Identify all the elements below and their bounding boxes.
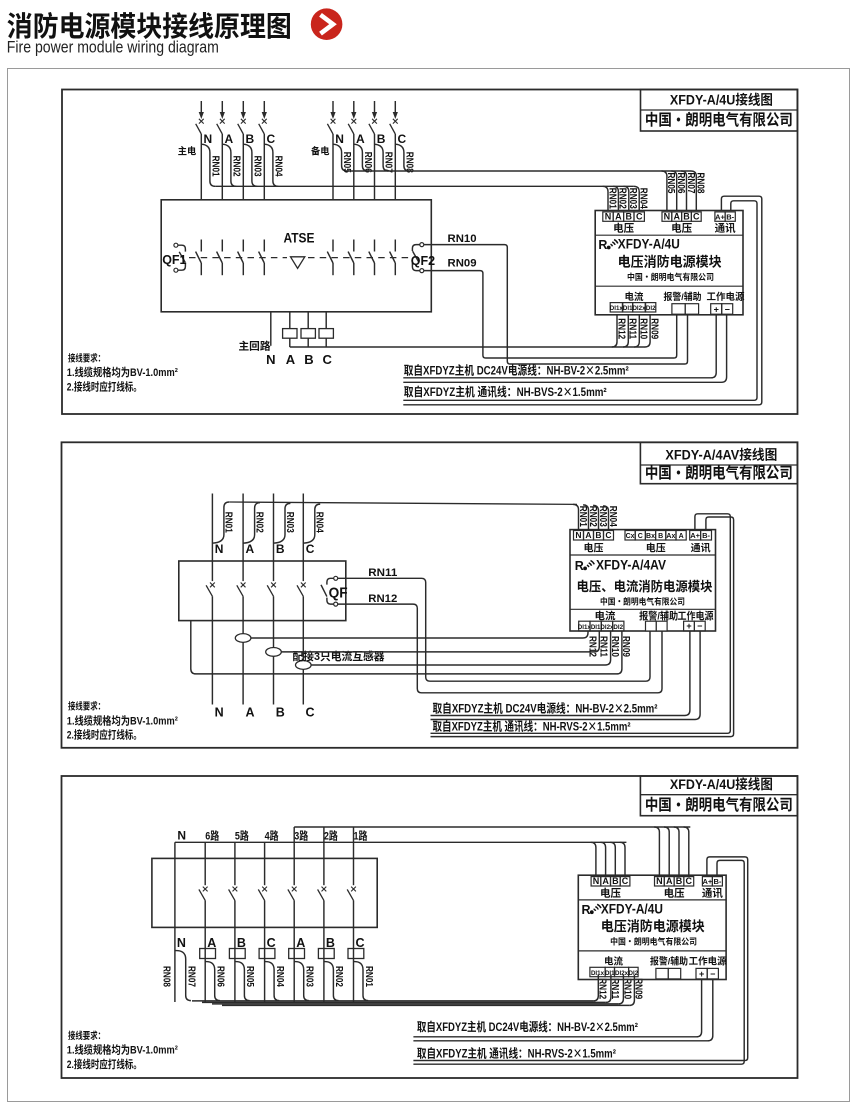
switch S21 (backup input N) bbox=[327, 101, 335, 134]
svg-text:A: A bbox=[286, 349, 296, 368]
branch RN03 bbox=[294, 962, 309, 1001]
svg-text:2.接线时应打线标。: 2.接线时应打线标。 bbox=[67, 379, 142, 395]
wire RN10 (QF2 top contact) bbox=[424, 245, 688, 364]
svg-text:报警/辅助: 报警/辅助 bbox=[639, 608, 678, 623]
svg-text:DI2: DI2 bbox=[613, 622, 623, 631]
switch S2 (5路) bbox=[229, 858, 238, 927]
svg-text:工作电源: 工作电源 bbox=[689, 954, 727, 968]
fuse branch RN03 bbox=[243, 144, 257, 186]
ATSE linkage dashed line bbox=[189, 257, 287, 259]
svg-text:RN08: RN08 bbox=[404, 152, 419, 173]
riser RN06 to U1 group2 A bbox=[671, 171, 676, 211]
branch RN01 bbox=[354, 962, 369, 1001]
switch S13 (main input B) bbox=[238, 101, 246, 134]
fuse branch RN05 bbox=[333, 144, 347, 171]
svg-text:Ax: Ax bbox=[666, 531, 675, 541]
branch RN02 bbox=[324, 962, 339, 1001]
svg-text:取自XFDYZ主机 DC24V电源线：NH-BV-2×2.5: 取自XFDYZ主机 DC24V电源线：NH-BV-2×2.5mm² bbox=[404, 362, 629, 379]
ATSE pole switch 1 bbox=[196, 240, 202, 276]
svg-text:RN04: RN04 bbox=[638, 188, 653, 209]
panel 2 title box XFDY-A/4AV bbox=[640, 442, 797, 483]
svg-text:DI2x: DI2x bbox=[632, 303, 646, 312]
svg-text:B: B bbox=[304, 349, 313, 368]
svg-text:C: C bbox=[636, 209, 643, 222]
svg-text:4路: 4路 bbox=[265, 827, 279, 843]
U1 DI terminals bbox=[610, 303, 622, 312]
U3 power terminals + - bbox=[696, 968, 707, 979]
wire main-circuit A bbox=[289, 312, 291, 347]
svg-text:电压消防电源模块: 电压消防电源模块 bbox=[601, 915, 705, 935]
svg-text:RN03: RN03 bbox=[304, 966, 319, 987]
svg-text:XFDY-A/4U接线图: XFDY-A/4U接线图 bbox=[670, 89, 773, 109]
DI riser RN10 bbox=[634, 315, 639, 347]
svg-text:A: A bbox=[679, 531, 684, 541]
svg-text:N: N bbox=[575, 529, 581, 541]
svg-text:+: + bbox=[714, 302, 719, 315]
U2 comm terminals A+ B- bbox=[690, 531, 701, 541]
riser RN03 to U2 B bbox=[593, 505, 598, 529]
svg-text:RN06: RN06 bbox=[215, 966, 230, 987]
wire main-circuit C bbox=[325, 312, 327, 347]
svg-text:RN04: RN04 bbox=[273, 156, 288, 177]
gather bus wire 4 bbox=[222, 1004, 629, 1006]
module U1 outline bbox=[595, 211, 743, 315]
output wire B bbox=[273, 621, 275, 705]
wire RN12 bbox=[338, 604, 662, 693]
svg-text:电流: 电流 bbox=[604, 954, 623, 968]
svg-text:R: R bbox=[582, 899, 591, 918]
panel 1 title box XFDY-A/4U bbox=[641, 90, 798, 132]
fuse F5 (5路) bbox=[229, 949, 245, 959]
output wire A bbox=[242, 621, 244, 705]
DC24V wire - bbox=[413, 980, 712, 1041]
switch S1 bbox=[206, 561, 215, 621]
switch S23 (backup input B) bbox=[369, 101, 377, 134]
svg-text:DI1x: DI1x bbox=[591, 968, 605, 977]
svg-text:C: C bbox=[323, 349, 333, 368]
input wire N bbox=[211, 494, 213, 562]
fuse branch RN04 bbox=[303, 504, 320, 543]
riser to U3 group1 bbox=[610, 842, 615, 875]
riser to U3 group2 bbox=[684, 827, 689, 875]
breaker QF bbox=[321, 576, 338, 606]
svg-text:2.接线时应打线标。: 2.接线时应打线标。 bbox=[67, 727, 142, 743]
svg-text:XFDY-A/4AV: XFDY-A/4AV bbox=[596, 555, 667, 575]
gather bus wire 1 bbox=[192, 1000, 593, 1002]
wire C main bbox=[263, 134, 265, 200]
riser RN01 to U1 terminal N bbox=[603, 186, 608, 210]
switch S6 (1路) bbox=[347, 858, 356, 927]
switch S4 (3路) bbox=[288, 858, 297, 927]
U1 alarm terminals bbox=[672, 304, 685, 315]
svg-text:配接3只电流互感器: 配接3只电流互感器 bbox=[293, 648, 385, 664]
svg-text:XFDY-A/4U接线图: XFDY-A/4U接线图 bbox=[670, 773, 773, 793]
svg-text:N: N bbox=[215, 702, 224, 721]
svg-text:−: − bbox=[697, 619, 702, 632]
wire 4路 drop bbox=[264, 927, 266, 1002]
svg-text:R: R bbox=[575, 555, 584, 574]
output wire C bbox=[302, 621, 304, 705]
svg-text:工作电源: 工作电源 bbox=[707, 289, 745, 303]
wire B backup bbox=[374, 134, 376, 200]
DI riser RN10 bbox=[618, 975, 623, 1004]
U2 voltage terminals group1 bbox=[574, 531, 584, 541]
riser RN02 to U1 terminal A bbox=[613, 186, 618, 210]
breaker QF2 bbox=[412, 243, 423, 273]
fuse branch RN01 bbox=[201, 144, 215, 186]
svg-text:Fire power module wiring diagr: Fire power module wiring diagram bbox=[7, 34, 219, 58]
svg-text:中国・朗明电气有限公司: 中国・朗明电气有限公司 bbox=[627, 271, 714, 283]
svg-text:RN09: RN09 bbox=[448, 255, 477, 271]
svg-text:DI2: DI2 bbox=[646, 303, 656, 312]
svg-text:RN10: RN10 bbox=[448, 230, 477, 246]
DC24V wire + bbox=[431, 631, 690, 716]
svg-text:DI2x: DI2x bbox=[600, 622, 614, 631]
svg-text:C: C bbox=[306, 702, 315, 721]
svg-text:RN01: RN01 bbox=[363, 966, 378, 987]
switch S22 (backup input A) bbox=[348, 101, 356, 134]
gather bus wire 3 bbox=[212, 1003, 618, 1005]
svg-text:通讯: 通讯 bbox=[715, 221, 736, 236]
svg-text:DI1x: DI1x bbox=[610, 303, 624, 312]
panel2 bus wire bbox=[229, 502, 577, 504]
wire A main bbox=[221, 134, 223, 200]
feeder wire N bbox=[174, 842, 176, 858]
svg-text:通讯: 通讯 bbox=[691, 539, 711, 554]
svg-text:C: C bbox=[622, 874, 629, 887]
current transformer CT1 bbox=[283, 329, 297, 339]
input wire A bbox=[242, 494, 244, 562]
svg-text:取自XFDYZ主机 通讯线：NH-BVS-2×1.5mm²: 取自XFDYZ主机 通讯线：NH-BVS-2×1.5mm² bbox=[404, 383, 607, 400]
current transformer CT1 bbox=[235, 634, 251, 643]
CT-C wire to DI2x bbox=[311, 631, 610, 665]
riser to U3 group2 bbox=[654, 827, 659, 875]
svg-text:N: N bbox=[593, 874, 600, 887]
current transformer CT2 bbox=[301, 329, 315, 339]
svg-text:QF: QF bbox=[329, 582, 348, 603]
svg-text:取自XFDYZ主机 DC24V电源线：NH-BV-2×2.5: 取自XFDYZ主机 DC24V电源线：NH-BV-2×2.5mm² bbox=[433, 699, 658, 716]
U1 comm terminals A+ B- bbox=[715, 212, 725, 221]
svg-text:接线要求：: 接线要求： bbox=[68, 699, 105, 713]
svg-text:RN08: RN08 bbox=[161, 966, 176, 987]
wire N drop bbox=[174, 927, 176, 1002]
wire main-circuit N bbox=[270, 312, 272, 346]
svg-text:RN12: RN12 bbox=[368, 590, 397, 606]
switch S2 bbox=[237, 561, 246, 621]
fuse F1 (1路) bbox=[348, 949, 364, 959]
U2 current terminals Cx C Bx B Ax A bbox=[625, 531, 635, 541]
DC24V wire - bbox=[431, 631, 701, 720]
svg-text:QF1: QF1 bbox=[162, 249, 186, 268]
riser to U3 group2 bbox=[674, 827, 679, 875]
svg-text:中国・朗明电气有限公司: 中国・朗明电气有限公司 bbox=[645, 108, 793, 130]
riser RN04 to U2 C bbox=[603, 506, 608, 530]
svg-text:接线要求：: 接线要求： bbox=[68, 1028, 105, 1042]
branch RN04 bbox=[265, 962, 280, 1001]
svg-text:RN09: RN09 bbox=[648, 318, 663, 339]
riser to U3 group2 bbox=[664, 827, 669, 875]
U3 DI terminals bbox=[590, 967, 605, 976]
wire main-circuit B bbox=[307, 312, 309, 347]
switch S11 (main input N) bbox=[196, 101, 204, 134]
svg-text:RN09: RN09 bbox=[633, 978, 648, 999]
upper bus wire bbox=[294, 826, 690, 828]
comm wire A+ loop bbox=[403, 196, 762, 405]
svg-text:通讯: 通讯 bbox=[702, 885, 723, 900]
riser RN04 to U1 terminal C bbox=[634, 186, 639, 210]
svg-text:取自XFDYZ主机 通讯线：NH-RVS-2×1.5mm²: 取自XFDYZ主机 通讯线：NH-RVS-2×1.5mm² bbox=[433, 718, 631, 735]
svg-text:RN11: RN11 bbox=[368, 564, 397, 580]
panel 1 border bbox=[62, 90, 798, 415]
svg-text:中国・朗明电气有限公司: 中国・朗明电气有限公司 bbox=[645, 461, 793, 483]
fuse branch RN06 bbox=[354, 144, 368, 171]
svg-text:RN05: RN05 bbox=[244, 966, 259, 987]
svg-text:中国・朗明电气有限公司: 中国・朗明电气有限公司 bbox=[610, 936, 697, 948]
svg-text:工作电源: 工作电源 bbox=[678, 608, 714, 623]
wire 1路 drop bbox=[353, 927, 355, 1002]
svg-text:电压、电流消防电源模块: 电压、电流消防电源模块 bbox=[577, 576, 713, 595]
switch S1 (6路) bbox=[199, 858, 208, 927]
feeder wire 6路 bbox=[204, 842, 206, 858]
backup bus wire bbox=[347, 170, 691, 172]
svg-text:备电: 备电 bbox=[311, 144, 330, 158]
wire RN09 (QF2 bottom contact) bbox=[424, 271, 677, 358]
U2 power terminals bbox=[684, 621, 695, 631]
riser RN08 to U1 group2 C bbox=[691, 171, 696, 211]
svg-text:接线要求：: 接线要求： bbox=[68, 351, 105, 365]
svg-text:电压: 电压 bbox=[664, 885, 685, 900]
input wire C bbox=[302, 494, 304, 562]
U1 voltage terminals group2 N A B C bbox=[662, 212, 672, 221]
wire 6路 drop bbox=[204, 927, 206, 1002]
comm wire B- loop bbox=[431, 517, 734, 737]
svg-text:主电: 主电 bbox=[178, 144, 197, 158]
svg-text:N: N bbox=[656, 874, 663, 887]
svg-text:−: − bbox=[725, 302, 730, 315]
fuse F4 (4路) bbox=[259, 949, 275, 959]
current transformer CT3 bbox=[319, 329, 333, 339]
fuse F3 (3路) bbox=[289, 949, 305, 959]
current transformer CT2 bbox=[266, 648, 282, 657]
svg-text:QF2: QF2 bbox=[411, 250, 435, 269]
gather bus wire 2 bbox=[202, 1001, 606, 1003]
U3 logo bbox=[582, 899, 602, 918]
comm wire A+ loop bbox=[413, 857, 747, 1061]
CT-A wire to DI1x bbox=[251, 631, 588, 638]
feeder wire 5路 bbox=[234, 842, 236, 858]
DC24V wire + bbox=[413, 980, 701, 1037]
fuse branch RN07 bbox=[375, 144, 389, 171]
switch S5 (2路) bbox=[318, 858, 327, 927]
fuse F2 (2路) bbox=[318, 949, 334, 959]
svg-text:电压: 电压 bbox=[584, 539, 604, 554]
U1 power terminals + - bbox=[711, 304, 722, 315]
switch S14 (main input C) bbox=[259, 101, 267, 134]
N sense wire to DI2 bbox=[191, 621, 622, 674]
svg-text:B: B bbox=[276, 702, 285, 721]
svg-text:N: N bbox=[177, 932, 186, 951]
svg-text:N: N bbox=[664, 209, 671, 222]
riser RN01 to U2 N bbox=[573, 504, 578, 529]
svg-text:DI1: DI1 bbox=[605, 968, 615, 977]
svg-text:RN02: RN02 bbox=[253, 512, 268, 533]
fuse branch RN04 bbox=[264, 144, 278, 186]
svg-text:R: R bbox=[598, 234, 607, 253]
branch RN07 bbox=[175, 951, 191, 1001]
panel 2 border bbox=[62, 442, 798, 748]
input wire B bbox=[273, 494, 275, 562]
svg-text:C: C bbox=[686, 874, 693, 887]
lower bus wire bbox=[175, 841, 627, 843]
DC24V wire + bbox=[403, 315, 716, 378]
svg-text:6路: 6路 bbox=[205, 827, 219, 843]
output wire N bbox=[211, 621, 213, 705]
module U3 divider lines bbox=[578, 899, 726, 901]
svg-text:RN04: RN04 bbox=[274, 966, 289, 987]
svg-text:RN04: RN04 bbox=[314, 512, 329, 533]
svg-text:C: C bbox=[638, 531, 643, 541]
svg-text:A: A bbox=[246, 540, 255, 557]
comm wire A+ loop bbox=[431, 514, 731, 734]
ATSE pole switch 3 bbox=[238, 240, 244, 276]
svg-text:报警/辅助: 报警/辅助 bbox=[650, 954, 688, 968]
panel 3 border bbox=[62, 776, 798, 1078]
svg-text:电流: 电流 bbox=[625, 289, 644, 303]
DI riser RN12 bbox=[593, 975, 598, 1001]
red arrow icon bbox=[311, 8, 343, 40]
svg-text:RN01: RN01 bbox=[223, 512, 238, 533]
svg-text:N: N bbox=[215, 540, 224, 557]
ATSE pole switch 7 bbox=[369, 240, 375, 276]
svg-text:取自XFDYZ主机 通讯线：NH-RVS-2×1.5mm²: 取自XFDYZ主机 通讯线：NH-RVS-2×1.5mm² bbox=[417, 1044, 616, 1061]
fuse branch RN03 bbox=[274, 503, 291, 543]
svg-text:2路: 2路 bbox=[324, 827, 338, 843]
switch S3 bbox=[267, 561, 276, 621]
switch S12 (main input A) bbox=[217, 101, 225, 134]
U2 alarm terminals bbox=[646, 621, 657, 631]
svg-text:+: + bbox=[686, 619, 691, 632]
ATSE pole switch 2 bbox=[217, 240, 223, 276]
svg-text:B: B bbox=[276, 540, 285, 557]
svg-text:DI2: DI2 bbox=[629, 968, 639, 977]
wire B main bbox=[242, 134, 244, 200]
U3 voltage terminals group1 N A B C bbox=[591, 877, 601, 886]
svg-text:RN09: RN09 bbox=[620, 636, 635, 657]
panel 3 title box XFDY-A/4U bbox=[640, 776, 797, 816]
U1 logo bbox=[598, 234, 617, 253]
svg-text:5路: 5路 bbox=[235, 827, 249, 843]
svg-text:N: N bbox=[266, 349, 275, 368]
comm wire B- loop bbox=[403, 201, 757, 400]
svg-text:中国・朗明电气有限公司: 中国・朗明电气有限公司 bbox=[600, 595, 685, 607]
svg-text:ATSE: ATSE bbox=[284, 228, 315, 248]
module U2 dividers bbox=[570, 554, 716, 556]
U2 DI terminals bbox=[579, 621, 590, 631]
U2 logo bbox=[575, 555, 595, 574]
wire N backup bbox=[332, 134, 334, 200]
feeder wire 3路 bbox=[293, 827, 295, 858]
wire 3路 drop bbox=[293, 927, 295, 1002]
switch enclosure bbox=[152, 858, 377, 927]
svg-text:RN02: RN02 bbox=[333, 966, 348, 987]
svg-text:C: C bbox=[605, 529, 611, 541]
riser to U3 group1 bbox=[591, 842, 596, 875]
fuse branch RN01 bbox=[212, 502, 229, 543]
breaker QF1 bbox=[174, 243, 186, 272]
current transformer CT3 bbox=[296, 661, 312, 670]
switch enclosure bbox=[179, 561, 346, 621]
svg-text:3路: 3路 bbox=[294, 827, 308, 843]
DI riser RN11 bbox=[606, 975, 611, 1003]
svg-text:DI1x: DI1x bbox=[578, 622, 592, 631]
U3 voltage terminals group2 N A B C bbox=[655, 877, 665, 886]
svg-text:2.接线时应打线标。: 2.接线时应打线标。 bbox=[67, 1056, 142, 1072]
svg-text:C: C bbox=[693, 209, 700, 222]
svg-text:取自XFDYZ主机 DC24V电源线：NH-BV-2×2.5: 取自XFDYZ主机 DC24V电源线：NH-BV-2×2.5mm² bbox=[417, 1018, 638, 1035]
wire RN11 bbox=[338, 578, 650, 681]
svg-text:电流: 电流 bbox=[595, 608, 616, 623]
switch S24 (backup input C) bbox=[390, 101, 398, 134]
ATSE transfer triangle bbox=[291, 257, 305, 269]
wire C backup bbox=[394, 134, 396, 200]
riser to U3 group1 bbox=[600, 842, 605, 875]
U3 alarm terminals bbox=[656, 968, 668, 979]
svg-text:C: C bbox=[306, 540, 315, 557]
module U1 divider lines bbox=[595, 234, 743, 236]
svg-text:1路: 1路 bbox=[354, 827, 368, 843]
svg-text:RN07: RN07 bbox=[186, 966, 201, 987]
ATSE enclosure bbox=[161, 200, 431, 312]
switch S4 bbox=[297, 561, 306, 621]
wire 5路 drop bbox=[234, 927, 236, 1002]
wire A backup bbox=[353, 134, 355, 200]
ATSE pole switch 6 bbox=[348, 240, 354, 276]
svg-text:−: − bbox=[710, 967, 715, 980]
U3 comm terminals A+ B- bbox=[702, 877, 712, 886]
ATSE pole switch 4 bbox=[259, 240, 265, 276]
wire 2路 drop bbox=[323, 927, 325, 1002]
DI riser RN9 bbox=[645, 315, 650, 347]
CT-B wire to DI1 bbox=[281, 631, 599, 652]
svg-text:RN04: RN04 bbox=[607, 506, 622, 527]
comm wire B- loop bbox=[413, 860, 744, 1064]
svg-text:RN03: RN03 bbox=[284, 512, 299, 533]
svg-text:电压: 电压 bbox=[646, 539, 666, 554]
svg-text:Cx: Cx bbox=[626, 531, 635, 541]
svg-text:N: N bbox=[605, 209, 612, 222]
svg-text:A: A bbox=[246, 702, 255, 721]
svg-text:N: N bbox=[177, 826, 186, 843]
fuse branch RN08 bbox=[395, 144, 409, 171]
svg-text:电压消防电源模块: 电压消防电源模块 bbox=[618, 250, 722, 270]
feeder wire 2路 bbox=[323, 827, 325, 858]
svg-text:中国・朗明电气有限公司: 中国・朗明电气有限公司 bbox=[645, 793, 793, 815]
branch RN06 bbox=[205, 962, 220, 1001]
module U3 outline bbox=[578, 875, 726, 979]
main bus wire bbox=[215, 185, 634, 187]
feeder wire 1路 bbox=[353, 827, 355, 858]
ATSE pole switch 8 bbox=[390, 240, 396, 276]
switch S3 (4路) bbox=[258, 858, 267, 927]
riser RN03 to U1 terminal B bbox=[623, 186, 628, 210]
U1 voltage terminals group1 N A B C bbox=[603, 212, 613, 221]
wire N through box bbox=[174, 858, 176, 927]
CT secondary wire to DI terminals bbox=[290, 346, 645, 348]
svg-text:DI2x: DI2x bbox=[615, 968, 629, 977]
svg-text:+: + bbox=[699, 967, 704, 980]
riser to U3 group1 bbox=[620, 842, 625, 875]
ATSE pole switch 5 bbox=[327, 240, 333, 276]
